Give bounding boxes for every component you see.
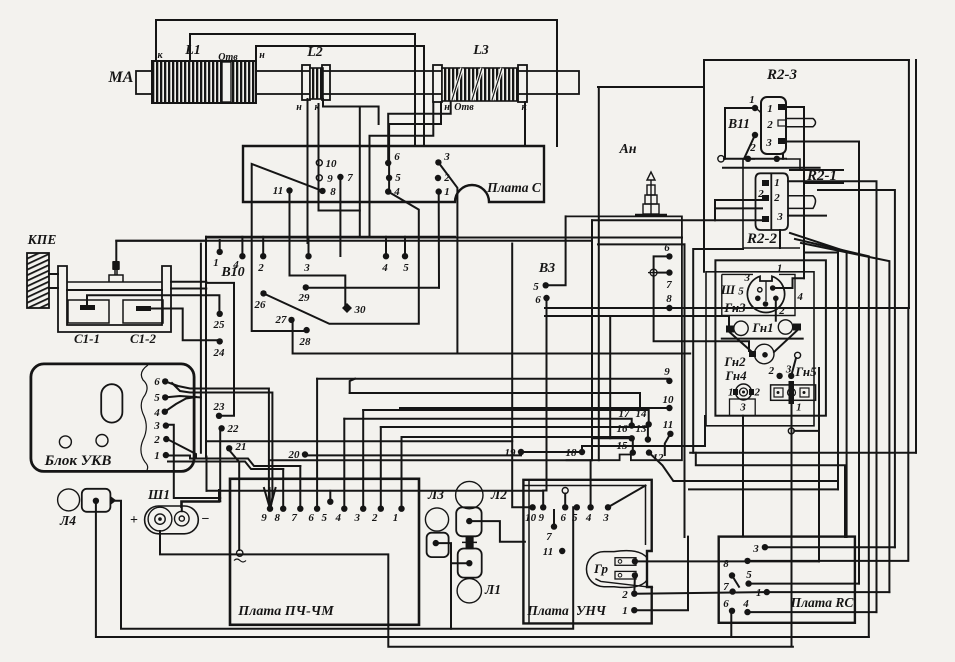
- wire V3-16 left: [592, 437, 632, 439]
- svg-text:3: 3: [765, 137, 772, 149]
- Gr cable tail: [596, 579, 652, 588]
- wire Gn5 lever: [791, 358, 796, 376]
- svg-text:КПЕ: КПЕ: [27, 232, 57, 247]
- wire RCrow out: [748, 308, 909, 561]
- box V3: [566, 216, 682, 460]
- Sh1 minus inner: [179, 516, 184, 521]
- svg-text:L1: L1: [184, 43, 201, 58]
- contact 4 UKV: [162, 409, 168, 415]
- box R2-3 right: [908, 60, 910, 308]
- svg-text:Гр: Гр: [593, 561, 608, 576]
- svg-text:7: 7: [723, 581, 729, 593]
- contact 28 B10: [303, 327, 309, 333]
- wire 28 stub: [306, 329, 308, 332]
- svg-text:3: 3: [353, 512, 360, 524]
- wire An loop: [598, 86, 704, 88]
- contact 8 RC: [729, 572, 735, 578]
- wire c3 B10 up: [308, 237, 310, 256]
- Sh1 body: [145, 506, 199, 534]
- svg-text:6: 6: [154, 376, 160, 388]
- svg-text:16: 16: [617, 423, 629, 435]
- contact 18: [579, 449, 585, 455]
- block UKV body: [31, 364, 194, 472]
- jack Gn1 right: [778, 320, 792, 334]
- svg-text:2: 2: [773, 192, 780, 204]
- Gn1 right pad: [793, 324, 801, 331]
- UKV oval hole: [101, 384, 122, 422]
- wire L3-left step: [370, 102, 434, 238]
- contact 7 PCh: [297, 506, 303, 512]
- contact 9 UNCh: [540, 504, 546, 510]
- svg-text:24: 24: [213, 347, 226, 359]
- contact 5 UKV: [162, 394, 168, 400]
- contact 4 PCh: [341, 506, 347, 512]
- wire Gn1R-Gn2 diag: [774, 331, 797, 353]
- svg-text:С1-2: С1-2: [130, 331, 157, 346]
- wire midbox v1: [684, 244, 686, 537]
- svg-text:10: 10: [525, 512, 537, 524]
- lamp L3: [425, 508, 448, 531]
- contact 3 UKV: [163, 422, 169, 428]
- Sh pin2 pad: [773, 296, 779, 302]
- svg-text:11: 11: [543, 546, 553, 558]
- wire bundle 490 drop: [206, 457, 208, 491]
- pad 4 Plata C: [385, 188, 391, 194]
- wire C1-1 to pad25: [87, 295, 219, 314]
- wire R2 in a: [715, 199, 762, 201]
- wire bigbox left: [693, 249, 743, 453]
- wire R2-1 pin2 top: [818, 190, 895, 547]
- Gr pin1: [632, 558, 638, 564]
- wire B11 pin1 out: [786, 107, 804, 278]
- contact 29 B10: [303, 284, 309, 290]
- svg-text:27: 27: [275, 314, 288, 326]
- wire band 460: [270, 459, 590, 461]
- svg-text:Блок УКВ: Блок УКВ: [44, 453, 112, 469]
- wire R2 diag2 to L4: [795, 239, 869, 637]
- pad 3 Plata C: [435, 159, 441, 165]
- contact 5 PCh: [327, 499, 333, 505]
- wire V3-9 left2: [317, 379, 669, 381]
- wire pad5C down: [388, 178, 390, 192]
- block Gn5: [771, 381, 816, 404]
- svg-text:22: 22: [227, 423, 240, 435]
- KPE section C1-1: [68, 300, 109, 323]
- svg-text:6: 6: [560, 512, 566, 524]
- pad 1 Plata C: [436, 188, 442, 194]
- svg-text:Гн1: Гн1: [751, 320, 773, 335]
- svg-text:1: 1: [622, 605, 628, 617]
- contact 25 B10: [217, 311, 223, 317]
- svg-text:7: 7: [292, 512, 298, 524]
- contact 3 Gn5: [788, 373, 794, 379]
- svg-text:МА: МА: [108, 69, 134, 86]
- wire B11 lower rail: [723, 167, 820, 169]
- svg-text:5: 5: [395, 172, 401, 184]
- pin2 B11 pad: [778, 120, 786, 126]
- wire pad8 diagonal: [252, 164, 323, 331]
- svg-text:18: 18: [566, 447, 578, 459]
- wire PCh6 up: [316, 379, 318, 509]
- svg-text:21: 21: [235, 441, 247, 453]
- svg-text:н: н: [444, 102, 450, 113]
- wire pad4C diag: [264, 192, 419, 324]
- wire Sh pin2 down: [775, 298, 777, 320]
- contact 7 V3col: [666, 269, 672, 275]
- svg-text:1: 1: [393, 512, 399, 524]
- junction Gn5 line: [788, 428, 794, 434]
- wire UNCh9 out: [543, 491, 546, 508]
- contact 4 RC: [744, 609, 750, 615]
- wire UKV3 down: [166, 425, 220, 498]
- wire c21 diag: [229, 450, 240, 551]
- contact 4b B10: [383, 253, 389, 259]
- contact 2 UKV: [163, 436, 169, 442]
- wire L2k branch: [360, 107, 379, 125]
- svg-text:11: 11: [273, 185, 283, 197]
- wire Gn1L-Gn2 diag: [730, 333, 752, 353]
- contact 7 RC: [729, 588, 735, 594]
- contact 2 B11: [752, 132, 758, 138]
- Sh1 plus outer: [148, 507, 172, 531]
- contact 5 UNCh: [574, 504, 580, 510]
- contact 1 B11: [752, 105, 758, 111]
- wire PCh9 fan1: [264, 488, 270, 509]
- wire L2-k terminal jog: [319, 104, 360, 211]
- wire PCh9 fan3: [270, 488, 276, 509]
- wire c4 B10 up: [241, 237, 243, 256]
- contact 3 B10: [305, 253, 311, 259]
- svg-text:5: 5: [572, 512, 578, 524]
- Sh1 plus inner: [155, 514, 165, 524]
- svg-text:8: 8: [723, 558, 729, 570]
- contact 5 B10: [402, 253, 408, 259]
- R2 pin2 plug: [788, 196, 816, 209]
- wire L4 pin down: [96, 501, 869, 637]
- contact 15 V3: [630, 449, 636, 455]
- box R2-3 left: [703, 60, 705, 272]
- pad 6 Plata C: [385, 160, 391, 166]
- svg-text:Гн2: Гн2: [723, 354, 746, 369]
- svg-text:7: 7: [347, 172, 353, 184]
- pad 10 Plata C: [316, 160, 322, 166]
- wire PCh3 up: [362, 410, 364, 509]
- wire R2 pin1 out: [788, 181, 877, 612]
- wire R2 in b: [715, 207, 762, 209]
- wire B11 bottom: [724, 158, 786, 160]
- wire bundle 490: [207, 490, 544, 492]
- svg-text:4: 4: [232, 259, 239, 271]
- wire R2 pin3 out: [788, 215, 826, 217]
- wire Gn5 branch: [794, 430, 819, 432]
- svg-text:4: 4: [381, 262, 388, 274]
- pin1 B11 pad: [778, 104, 786, 110]
- R2 pad c: [762, 216, 769, 222]
- pad 2 Plata C: [435, 175, 441, 181]
- KPE shaft bot: [49, 287, 58, 289]
- svg-text:1: 1: [774, 177, 780, 189]
- svg-text:Гн5: Гн5: [794, 364, 817, 379]
- L4 pin: [93, 498, 99, 504]
- svg-text:5: 5: [154, 392, 160, 404]
- Gr pin2: [632, 572, 638, 578]
- svg-text:8: 8: [274, 512, 280, 524]
- wire UNCh1 out: [634, 537, 688, 611]
- wire R2 diag1: [790, 233, 847, 537]
- contact 6 V3col: [666, 253, 672, 259]
- Gn1 left pad: [726, 326, 734, 333]
- svg-text:3: 3: [153, 420, 160, 432]
- contact 1 UKV: [163, 452, 169, 458]
- svg-text:1: 1: [756, 587, 762, 599]
- wire RC4 out: [748, 611, 877, 613]
- wire V3-15 up: [402, 437, 633, 453]
- wire PCh4 up: [343, 419, 345, 509]
- wire UNCh7 up: [553, 510, 555, 527]
- wire L1-n loop: [256, 46, 424, 146]
- svg-text:3: 3: [602, 512, 609, 524]
- svg-text:6: 6: [723, 598, 729, 610]
- wire An vertical: [598, 87, 600, 460]
- symbol ant UNCh: [562, 488, 568, 494]
- svg-text:Л3: Л3: [427, 487, 444, 502]
- wire RC3 out: [765, 546, 895, 548]
- B10 top rail: [206, 236, 455, 238]
- wire L3-n step: [389, 102, 441, 178]
- jack Gn1 left: [734, 321, 748, 335]
- wire L3-k down: [524, 102, 526, 146]
- svg-text:3: 3: [739, 402, 746, 414]
- contact 6 PCh: [314, 506, 320, 512]
- wire PCh8 up: [282, 469, 284, 509]
- Gn2 left pad: [749, 351, 756, 357]
- L2 socket1: [456, 507, 481, 536]
- svg-text:8: 8: [666, 293, 672, 305]
- wire L2-k down: [323, 99, 360, 238]
- svg-text:9: 9: [261, 512, 267, 524]
- contact 11 V3col: [667, 431, 673, 437]
- jack Gn2: [754, 344, 774, 364]
- coil L2: [302, 65, 330, 100]
- wire 18 up: [582, 446, 652, 452]
- contact 2 PCh: [378, 506, 384, 512]
- contact 13 V3: [645, 436, 651, 442]
- contact 3 PCh: [360, 506, 366, 512]
- KPE C1-1 pad: [80, 305, 95, 310]
- svg-text:28: 28: [299, 336, 312, 348]
- wire Sh1 minus: [182, 490, 219, 511]
- box R2-2 frame: [743, 159, 800, 248]
- wire Sh1 plus: [160, 531, 793, 647]
- wire UNCh4 up: [590, 460, 592, 507]
- svg-text:L3: L3: [472, 43, 489, 58]
- wire 30 up: [290, 276, 348, 309]
- L2 pin1: [466, 518, 472, 524]
- wire V3-18-19: [521, 451, 582, 453]
- Sh pin1 pad: [763, 301, 769, 307]
- L2 socket2: [458, 549, 482, 578]
- contact 1 B10: [217, 249, 223, 255]
- wire pad1C down: [438, 192, 440, 288]
- wire c4b B10 up: [385, 237, 387, 256]
- svg-text:5: 5: [403, 262, 409, 274]
- wire KPE aux1: [171, 281, 206, 283]
- box R2-3 top: [704, 59, 909, 61]
- wire UKV6b out: [172, 383, 272, 509]
- Gr jack2: [615, 571, 636, 579]
- wire L1-k top loop: [156, 20, 557, 146]
- KPE knob: [27, 253, 49, 308]
- wire L2 pin2 out: [451, 562, 469, 564]
- wire mid 393: [350, 379, 355, 393]
- wire 29 right: [306, 287, 439, 289]
- svg-text:10: 10: [326, 158, 338, 170]
- svg-text:Л2: Л2: [490, 487, 507, 502]
- wire Sh1 minus2: [181, 501, 220, 507]
- wire pad7 down: [339, 177, 341, 256]
- svg-text:6: 6: [394, 151, 400, 163]
- svg-text:6: 6: [308, 512, 314, 524]
- Sh1 plus pin: [158, 517, 162, 521]
- svg-text:L2: L2: [306, 45, 323, 60]
- svg-text:4: 4: [153, 407, 160, 419]
- wire UKV6 out: [165, 381, 270, 508]
- wire An vertical2: [591, 220, 593, 460]
- wire x838 stub: [804, 252, 838, 254]
- wire y489 run: [689, 488, 838, 490]
- Gn2 center: [762, 352, 768, 358]
- svg-text:1: 1: [796, 402, 802, 414]
- contact 2 Gn5: [776, 373, 782, 379]
- wire UNCh10 out: [512, 244, 532, 508]
- wire V3 6-7 col: [654, 256, 749, 351]
- contact 1 PCh: [398, 506, 404, 512]
- box Gn4 sub: [730, 399, 756, 416]
- wire B11 lever: [744, 135, 755, 159]
- wire RC5 out: [749, 583, 859, 585]
- contact 5 V3: [543, 282, 549, 288]
- contact 6 UKV: [162, 378, 168, 384]
- svg-text:23: 23: [213, 401, 226, 413]
- contact 8 PCh: [280, 506, 286, 512]
- wire c2 B10 up: [262, 237, 264, 256]
- KPE shaft top: [49, 273, 58, 275]
- board Plata RC: [719, 537, 855, 623]
- UKV hole left: [59, 436, 71, 448]
- contact 6 RC: [729, 608, 735, 614]
- wire V3-11 diag: [665, 434, 671, 455]
- wire mid 393b: [350, 393, 640, 408]
- svg-text:+: +: [130, 513, 138, 528]
- svg-text:н: н: [259, 50, 265, 61]
- contact 16 V3: [629, 435, 635, 441]
- contact 17 V3: [629, 422, 635, 428]
- contact 14 V3: [646, 421, 652, 427]
- Sh pin4 pad: [770, 285, 776, 291]
- contact 22 B10: [218, 425, 224, 431]
- wire KPE aux2: [171, 288, 206, 290]
- wire PCh7 up: [299, 466, 301, 509]
- contact 23 B10: [216, 413, 222, 419]
- svg-text:Ан: Ан: [618, 142, 636, 157]
- connector R2 body: [756, 173, 789, 230]
- wire L2 pin1 out: [469, 521, 525, 542]
- UKV hole right: [96, 435, 108, 447]
- svg-text:2: 2: [753, 386, 760, 398]
- svg-text:7: 7: [546, 531, 552, 543]
- svg-text:Л4: Л4: [59, 513, 76, 528]
- svg-text:2: 2: [621, 589, 628, 601]
- contact 9 PCh: [267, 506, 273, 512]
- lamp L2: [456, 481, 483, 508]
- contact 7 UNCh: [551, 523, 557, 529]
- wire Gn5-1 down: [791, 404, 793, 646]
- wire c22 down: [219, 429, 221, 501]
- wire L2-n down: [307, 99, 309, 243]
- svg-text:Плата: Плата: [526, 603, 569, 618]
- wire L4 tab out: [116, 501, 573, 629]
- box R2-3 right outer: [915, 60, 917, 453]
- contact 10 V3col: [666, 405, 672, 411]
- svg-text:4: 4: [585, 512, 592, 524]
- contact 26 B10: [260, 290, 266, 296]
- contact 4 B10: [239, 253, 245, 259]
- contact 8 V3col: [666, 305, 672, 311]
- svg-text:25: 25: [213, 319, 226, 331]
- wire Gn1 rail: [722, 338, 803, 340]
- Gn5 pivot: [795, 352, 801, 358]
- contact 12 V3: [646, 449, 652, 455]
- L3 pin: [433, 540, 439, 546]
- svg-text:19: 19: [505, 447, 517, 459]
- jack Gn4: [733, 384, 754, 400]
- L3 socket: [427, 533, 449, 557]
- symbol screen V3-7: [648, 269, 659, 276]
- wire RC8 lever: [732, 576, 739, 587]
- B10 left rail inner: [205, 237, 207, 457]
- svg-text:1: 1: [728, 386, 734, 398]
- terminal B11 left: [718, 156, 724, 162]
- svg-text:R2-3: R2-3: [766, 67, 798, 83]
- wire UKV2 diag: [166, 439, 196, 459]
- wire UKV1 out: [166, 456, 300, 467]
- svg-text:8: 8: [330, 186, 336, 198]
- wire Gn4-3 down: [742, 416, 744, 537]
- contact 20 B10: [302, 451, 308, 457]
- wire R2 in tie: [714, 200, 716, 220]
- wire UNCh3 diag: [608, 486, 646, 508]
- contact 6 UNCh: [562, 504, 568, 510]
- wire V3-17 up: [344, 419, 631, 426]
- coil L1: [152, 61, 256, 103]
- j1 B11 bottom: [745, 156, 751, 162]
- wire V3-13 up: [381, 427, 648, 440]
- R2-1 label frame bot: [804, 182, 843, 184]
- wire Gr pin1 out: [635, 560, 819, 562]
- L2 link: [462, 536, 477, 548]
- connector B11 body: [761, 97, 786, 154]
- svg-text:10: 10: [663, 394, 675, 406]
- svg-text:Ш1: Ш1: [147, 487, 170, 502]
- svg-text:Плата RC: Плата RC: [790, 595, 855, 610]
- svg-text:1: 1: [777, 263, 783, 275]
- wire c1 B10 up: [219, 240, 221, 252]
- svg-text:26: 26: [254, 299, 267, 311]
- wire x819 vert: [818, 368, 820, 561]
- wire R2 diag3: [801, 243, 889, 592]
- svg-text:2: 2: [153, 434, 160, 446]
- Sh pin5 hole: [758, 288, 762, 292]
